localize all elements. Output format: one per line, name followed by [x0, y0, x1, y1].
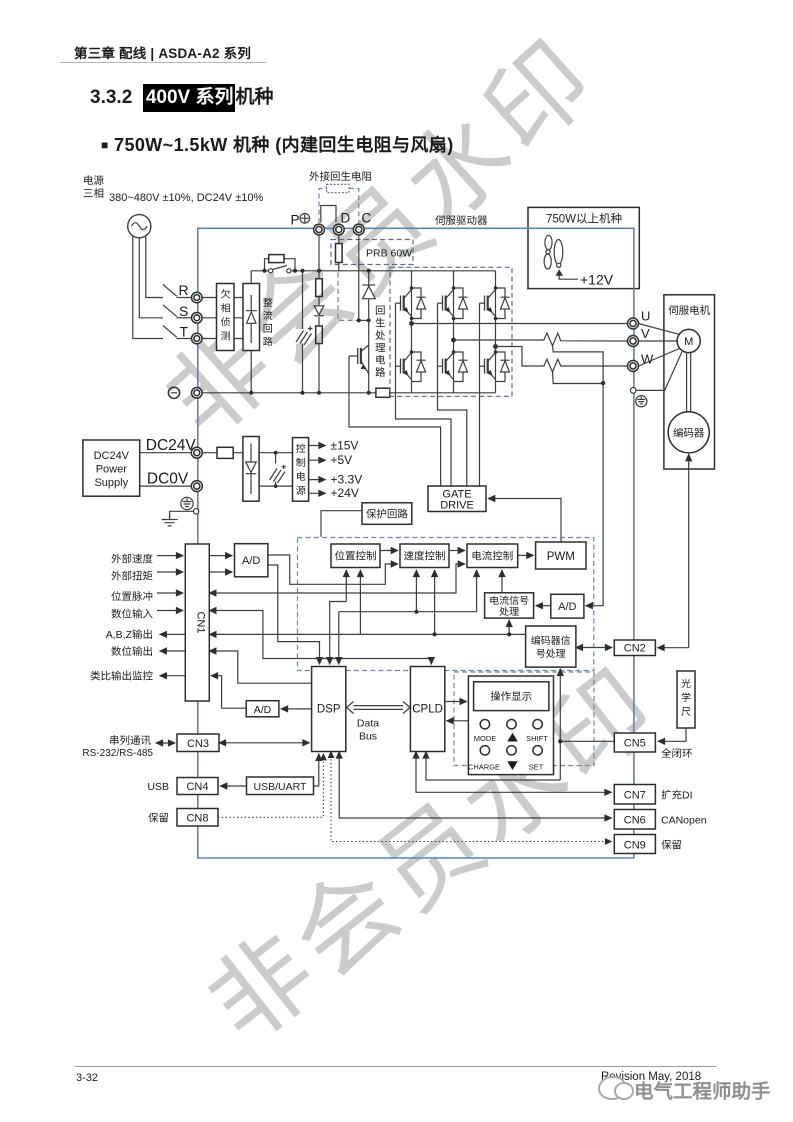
box A/D monitor [246, 701, 279, 717]
wire ABZ encoder output line [209, 633, 525, 635]
svg-text:电: 电 [296, 471, 306, 483]
ground symbol (circled earth) [636, 396, 647, 407]
wire C node to diode node [356, 319, 369, 321]
wire speed branch from 611 line [339, 611, 477, 613]
box GATE DRIVE [428, 486, 486, 512]
box CN6 [614, 810, 655, 830]
terminal D [333, 224, 344, 235]
box CN3 [177, 734, 219, 752]
svg-text:CN4: CN4 [186, 781, 208, 793]
svg-text:+12V: +12V [580, 272, 614, 288]
resistor chain on P branch [314, 271, 324, 393]
arrows CN1 to A/D [209, 555, 232, 557]
box 位置控制 position control [331, 544, 380, 568]
watermark 非会员水印 lower [192, 651, 675, 1059]
control rectifier diode box [243, 437, 259, 502]
arrow encoder line to current signal processing [508, 620, 510, 634]
arrow CPLD to panel [445, 701, 467, 703]
AC source [128, 215, 151, 238]
wire speed branch from 634 line [434, 570, 436, 634]
svg-text:学: 学 [681, 692, 691, 704]
wire V phase line with current sensor [454, 333, 628, 346]
box PWM [536, 542, 586, 569]
svg-text:外部速度: 外部速度 [111, 553, 153, 565]
terminal C [353, 224, 364, 235]
box 电流控制 current control [467, 544, 518, 568]
wire DC-link capacitor branch [302, 271, 304, 393]
svg-text:生: 生 [375, 318, 386, 330]
svg-text:CN2: CN2 [624, 643, 646, 655]
switch R [163, 285, 192, 298]
data bus double arrow [347, 702, 411, 714]
wire gate line leg2 to gate drive [438, 303, 467, 486]
footer watermark brand text [634, 1075, 771, 1104]
IGBT lower leg U [396, 352, 412, 393]
svg-text:CN7: CN7 [624, 790, 646, 802]
IGBT upper leg U [396, 271, 412, 319]
internal regen resistor on D [336, 235, 343, 271]
svg-text:CN6: CN6 [624, 815, 646, 827]
IGBT upper leg V [438, 271, 454, 319]
svg-text:路: 路 [263, 336, 273, 348]
keypad buttons row2 [480, 746, 542, 755]
relay contact (soft charge) [269, 266, 292, 273]
label 回生处理电路 [375, 305, 386, 379]
wire node to CN5 [560, 740, 614, 742]
svg-text:回: 回 [375, 305, 386, 317]
svg-text:号处理: 号处理 [536, 648, 566, 660]
svg-text:Power: Power [96, 464, 128, 476]
box 速度控制 speed control [400, 544, 449, 568]
fan icon [544, 235, 563, 269]
svg-text:U: U [641, 309, 650, 324]
box A/D current [551, 594, 584, 618]
arrow panel to CPLD [447, 720, 469, 722]
wire protection to control block [321, 511, 362, 537]
svg-text:外接回生电阻: 外接回生电阻 [309, 171, 372, 183]
svg-text:S: S [179, 303, 188, 319]
box DC24V power supply [83, 440, 140, 496]
svg-text:CN5: CN5 [624, 738, 646, 750]
IGBT lower leg W [480, 352, 496, 393]
junction dots on - bus [249, 391, 253, 395]
terminal PE (small) [194, 509, 199, 514]
svg-text:PWM: PWM [547, 551, 575, 563]
svg-text:SET: SET [529, 763, 544, 772]
svg-text:Data: Data [357, 718, 379, 730]
wire A/D speed ref to speed control [268, 555, 398, 584]
svg-text:制: 制 [296, 457, 306, 469]
svg-text:流: 流 [263, 310, 273, 322]
wire DSP to CN6 [339, 752, 611, 819]
wire digital output from DSP [209, 651, 311, 683]
arrow speed to current [449, 550, 465, 552]
svg-text:测: 测 [221, 331, 231, 343]
box CN4 [177, 778, 218, 795]
label 整流回路 [263, 297, 273, 348]
wire current control feed [476, 570, 478, 612]
motor M [677, 329, 700, 352]
symbol circled plus [300, 214, 310, 224]
encoder 编码器 [668, 412, 709, 453]
svg-text:编码器信: 编码器信 [531, 635, 571, 647]
switch S [163, 305, 192, 318]
svg-text:Supply: Supply [94, 477, 128, 489]
svg-text:保留: 保留 [661, 839, 682, 851]
diode lower leg W [496, 352, 510, 382]
footer revision [601, 1071, 701, 1083]
wire W phase line with current sensor [496, 347, 628, 373]
wires U V W PE to motor [636, 324, 682, 391]
wire pulse input to current control [209, 564, 464, 593]
arrow position to speed [380, 550, 398, 552]
svg-text:Bus: Bus [359, 731, 377, 743]
box 电流信号处理 current signal processing [485, 593, 534, 618]
svg-text:保护回路: 保护回路 [366, 508, 408, 520]
svg-text:速度控制: 速度控制 [404, 551, 446, 563]
wire P down to + bus [318, 235, 320, 271]
svg-text:A/D: A/D [558, 601, 576, 613]
svg-text:D: D [341, 211, 351, 226]
svg-text:±15V: ±15V [331, 439, 359, 453]
svg-text:类比输出监控: 类比输出监控 [90, 671, 153, 683]
ground PE circle [181, 497, 193, 509]
footer page number [76, 1072, 98, 1084]
shunt resistor box on - bus [376, 388, 390, 397]
svg-text:回: 回 [263, 324, 273, 335]
arrow current signal to current control [501, 570, 503, 593]
svg-text:DSP: DSP [317, 704, 341, 716]
svg-text:750W以上机种: 750W以上机种 [546, 213, 622, 226]
svg-text:CHARGE: CHARGE [468, 763, 500, 772]
wire U phase line [412, 323, 628, 325]
wire CN8 to DSP (dotted) [218, 754, 323, 818]
svg-text:路: 路 [375, 367, 386, 379]
wires R S T to phase-loss detect [202, 298, 216, 339]
label voltage range [109, 192, 263, 204]
svg-text:控: 控 [296, 443, 306, 455]
jumper P-D [321, 206, 336, 223]
wires to control power [259, 453, 292, 486]
wire - bus [202, 392, 495, 394]
wire DSP to A/D monitor [281, 708, 312, 710]
wire gate line leg3 to gate drive [479, 303, 481, 486]
box CPLD [410, 667, 444, 752]
IGBT lower leg V [438, 352, 454, 393]
arrow USB/UART to CN4 [220, 785, 246, 787]
svg-text:全闭环: 全闭环 [661, 748, 693, 760]
arrow A/D to current signal processing [536, 605, 551, 607]
svg-text:侦: 侦 [221, 317, 231, 329]
current sensor W tail [553, 372, 604, 384]
svg-text:CN8: CN8 [186, 813, 208, 825]
keypad panel [468, 676, 553, 775]
box PRB 60W (dashed) [331, 240, 413, 265]
wire analog monitor via D/A [211, 676, 246, 709]
svg-text:+24V: +24V [331, 486, 359, 500]
box 控制电源 control power [293, 438, 309, 502]
terminal W [628, 361, 639, 372]
svg-text:DRIVE: DRIVE [440, 500, 474, 512]
wire A/D torque ref to DSP [268, 565, 320, 664]
wire digital input to CPLD [209, 611, 431, 665]
terminal S [192, 313, 203, 324]
svg-text:尺: 尺 [681, 707, 691, 718]
svg-text:CANopen: CANopen [661, 815, 707, 827]
box CN5 [614, 733, 655, 752]
svg-text:外部扭矩: 外部扭矩 [111, 571, 153, 583]
diode lower leg U [412, 352, 426, 382]
wires PSU to terminals [140, 453, 192, 486]
box CN8 [177, 809, 218, 827]
box CN7 [614, 785, 655, 805]
svg-text:处理: 处理 [499, 606, 519, 618]
footer rule [75, 1066, 716, 1067]
terminal DC0V [191, 481, 202, 492]
svg-text:相: 相 [221, 303, 231, 315]
wire CN3 to DSP [219, 742, 310, 744]
motor shaft [687, 352, 691, 412]
box CN2 [614, 640, 655, 656]
section heading 3.3.2 400V [90, 87, 274, 108]
wire CPLD to keypad/CN5 node [426, 752, 560, 781]
box 整流回路 rectifier [243, 284, 260, 351]
box 伺服电机 servo motor [664, 295, 715, 469]
svg-text:电: 电 [375, 355, 386, 367]
box CN1 [185, 544, 209, 701]
watermark 非会员水印 upper [149, 21, 613, 453]
svg-text:伺服驱动器: 伺服驱动器 [435, 215, 488, 227]
svg-text:T: T [180, 324, 189, 340]
wire DSP link down [338, 612, 340, 665]
svg-text:A,B,Z输出: A,B,Z输出 [106, 629, 153, 641]
box USB/UART [247, 777, 314, 795]
regen circuit dashed boundary [338, 273, 356, 321]
wire DSP to CN9 (dotted) [331, 752, 612, 842]
svg-text:数位输出: 数位输出 [111, 646, 153, 658]
svg-text:CN1: CN1 [194, 611, 206, 633]
svg-text:位置控制: 位置控制 [335, 551, 377, 563]
diode upper leg U [412, 288, 426, 319]
svg-text:DC0V: DC0V [147, 471, 189, 488]
wire phase node U [411, 319, 413, 353]
terminal V [628, 336, 639, 347]
box 光学尺 linear scale [677, 671, 695, 728]
keypad buttons row1 [480, 720, 542, 729]
wire PWM to gate drive [488, 499, 561, 543]
fuse on 24V rail [202, 447, 243, 458]
svg-text:电流信号: 电流信号 [489, 595, 529, 607]
svg-text:+3.3V: +3.3V [331, 473, 363, 487]
header chapter title [74, 42, 251, 62]
regen transistor Q (IGBT) [349, 320, 369, 392]
svg-text:+5V: +5V [331, 453, 353, 467]
wire encoder to CN2 [688, 454, 690, 648]
wires detect to rectifier [234, 298, 243, 339]
arrows CN1 left inputs [157, 555, 183, 557]
svg-text:MODE: MODE [474, 734, 497, 743]
footer logo blob [598, 1076, 626, 1100]
arrow current to PWM [518, 554, 534, 556]
wire USB/UART to DSP [314, 754, 319, 786]
box CN9 [614, 835, 655, 854]
svg-text:P: P [291, 213, 300, 228]
svg-text:扩充DI: 扩充DI [661, 790, 693, 802]
svg-text:PRB 60W: PRB 60W [366, 248, 412, 260]
control section dashed box [298, 538, 594, 671]
servo drive outline box (blue) [198, 228, 634, 858]
svg-text:保留: 保留 [148, 813, 169, 825]
box A/D analog input [235, 544, 268, 577]
inverter dashed box [390, 267, 512, 396]
svg-text:DC24V: DC24V [94, 450, 130, 462]
arrows CN1 left outputs [160, 633, 186, 635]
wire phase drops from source [133, 236, 163, 339]
svg-text:欠: 欠 [221, 289, 231, 301]
svg-text:整: 整 [263, 297, 273, 309]
fan +12V feed [556, 269, 614, 287]
wire encoder proc to CN2 [576, 647, 612, 649]
diode lower leg V [454, 352, 468, 382]
svg-text:A/D: A/D [254, 704, 272, 716]
terminal P [314, 224, 325, 235]
wire link up to position control [359, 570, 361, 634]
wire CPLD to CN7 [416, 752, 612, 793]
earth symbol [162, 511, 194, 526]
external regen resistor (dashed) [319, 184, 359, 223]
svg-text:RS-232/RS-485: RS-232/RS-485 [82, 748, 153, 759]
capacitor control rail [270, 453, 287, 486]
svg-text:V: V [641, 326, 650, 341]
terminal motor ground (small) [630, 388, 636, 394]
diode upper leg V [454, 288, 468, 319]
svg-text:处: 处 [375, 330, 386, 342]
wire rectifier bottom to - bus [250, 351, 252, 393]
soft charge resistor bypass [265, 255, 296, 271]
terminal T [192, 333, 203, 344]
terminal R [192, 292, 203, 303]
wire rectifier top to + bus [250, 271, 252, 284]
wire node to encoder proc [559, 669, 561, 780]
wire + bus [251, 270, 495, 272]
capacitor (electrolytic) [296, 326, 313, 345]
IGBT upper leg W [480, 271, 496, 319]
wire phase node V [453, 319, 455, 353]
svg-text:编码器: 编码器 [673, 428, 705, 440]
arrow serial to CN3 [156, 742, 175, 744]
label power source [83, 175, 104, 201]
box DSP [312, 667, 346, 752]
wire phase node W [495, 319, 497, 353]
terminal minus bus [168, 387, 179, 398]
svg-text:M: M [684, 336, 693, 348]
box 750W以上机种 (fan option) [528, 207, 639, 288]
wire regen gate to gate drive [349, 356, 441, 486]
header underline [60, 62, 266, 63]
operator display dashed box [454, 672, 594, 766]
svg-text:C: C [362, 211, 372, 226]
svg-text:DC24V: DC24V [146, 437, 197, 454]
wire C down to regen node [358, 235, 360, 321]
wire current feedback to A/D [586, 383, 603, 606]
svg-text:CPLD: CPLD [412, 704, 443, 716]
regen diode [363, 271, 376, 321]
svg-text:USB: USB [147, 781, 169, 793]
switch T [163, 326, 192, 339]
svg-text:CN9: CN9 [624, 839, 646, 851]
junction dots on + bus [263, 269, 267, 273]
svg-text:CN3: CN3 [187, 738, 209, 750]
svg-text:A/D: A/D [242, 555, 260, 567]
svg-text:伺服电机: 伺服电机 [668, 305, 710, 317]
svg-text:源: 源 [296, 485, 306, 497]
terminal U [628, 318, 639, 329]
svg-text:USB/UART: USB/UART [254, 781, 307, 793]
box 保护回路 protection circuit [362, 503, 412, 525]
svg-text:理: 理 [375, 343, 386, 355]
svg-text:电流控制: 电流控制 [471, 551, 513, 563]
wire linear scale to CN5 [658, 728, 686, 741]
svg-text:串列通讯: 串列通讯 [109, 735, 151, 747]
wire DSP-position link [330, 602, 347, 665]
terminal DC24V [191, 447, 202, 458]
svg-text:光: 光 [681, 678, 691, 690]
control power outputs [309, 445, 326, 447]
wire gate line leg1 to gate drive [396, 303, 452, 486]
diode upper leg W [496, 288, 510, 319]
current sensor V tail [553, 346, 604, 383]
svg-text:位置脉冲: 位置脉冲 [111, 591, 153, 603]
svg-text:SHIFT: SHIFT [526, 734, 548, 743]
bullet heading 750W~1.5kW [101, 131, 454, 157]
svg-text:数位输入: 数位输入 [111, 609, 153, 621]
box 欠相侦测 phase loss detect [217, 284, 235, 351]
svg-text:操作显示: 操作显示 [490, 691, 532, 703]
box 操作显示 display [474, 682, 549, 711]
svg-text:R: R [179, 282, 189, 298]
box 编码器信号处理 encoder signal processing [526, 626, 576, 667]
